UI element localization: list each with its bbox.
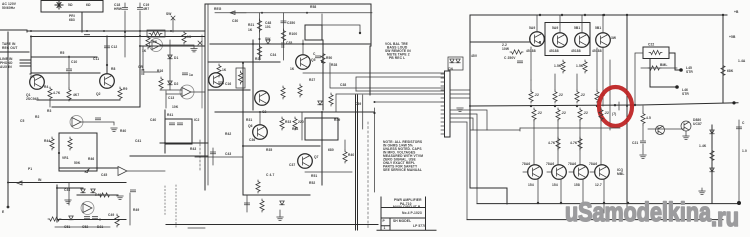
svg-text:R43: R43 — [190, 147, 196, 151]
svg-text:.22: .22 — [580, 93, 585, 97]
svg-text:.22: .22 — [558, 93, 563, 97]
svg-text:10K: 10K — [172, 105, 179, 109]
svg-text:1.5K: 1.5K — [554, 64, 562, 68]
resistor R9 — [118, 87, 122, 100]
crease dashed — [355, 95, 357, 230]
wire v363 — [362, 95, 364, 129]
wire h195 — [243, 194, 310, 196]
capacitor C44 — [95, 118, 100, 120]
svg-text:LP 5770: LP 5770 — [413, 224, 426, 228]
pot wiper arrow — [85, 169, 89, 173]
svg-text:C46: C46 — [64, 188, 70, 192]
svg-text:R20: R20 — [255, 57, 261, 61]
mid rail y106 — [470, 103, 738, 106]
diode D13 — [710, 130, 714, 134]
wire base feed — [470, 38, 530, 42]
svg-text:R40: R40 — [348, 153, 354, 157]
resistor R6 — [67, 88, 71, 101]
wire from T1 — [81, 12, 83, 32]
diode D5 — [318, 101, 322, 105]
svg-text:C 4.7: C 4.7 — [266, 173, 274, 177]
svg-text:1K: 1K — [248, 28, 253, 32]
wire j-fan right 2 — [450, 93, 470, 95]
bottom rail — [166, 224, 378, 226]
junction dot — [302, 43, 304, 45]
svg-text:C13: C13 — [168, 96, 174, 100]
svg-text:uSamodelkina: uSamodelkina — [565, 197, 712, 227]
capacitor C100 — [246, 195, 248, 212]
wire Q5 collector — [302, 40, 304, 55]
resistor R37 — [260, 199, 264, 212]
svg-text:R28: R28 — [331, 63, 337, 67]
rail dots — [539, 14, 541, 16]
transistor Q9 — [530, 32, 545, 47]
svg-text:R100: R100 — [289, 32, 297, 36]
wire j-fan right 3 — [450, 97, 470, 99]
svg-text:R39: R39 — [334, 118, 340, 122]
op-amp U3 — [72, 118, 81, 127]
svg-text:.22: .22 — [604, 111, 609, 115]
svg-text:4.7K: 4.7K — [548, 141, 556, 145]
connector J1 pins — [441, 74, 445, 134]
svg-text:.22: .22 — [534, 93, 539, 97]
svg-text:R5: R5 — [60, 51, 64, 55]
node X1 — [171, 16, 175, 32]
svg-text:C350: C350 — [287, 21, 295, 25]
wire input 2 — [20, 62, 31, 64]
wire v323 — [322, 40, 324, 110]
resistor R26 — [329, 93, 333, 106]
svg-text:78A6: 78A6 — [546, 162, 554, 166]
arrow node — [230, 11, 246, 15]
resistor R47 — [48, 217, 61, 221]
svg-text:BML: BML — [660, 63, 667, 67]
transistor Q16 — [552, 165, 567, 180]
transistor Q12 — [596, 33, 611, 48]
svg-text:SH MODEL: SH MODEL — [393, 219, 411, 223]
right block bottom edge — [470, 188, 507, 204]
svg-text:5A9: 5A9 — [552, 26, 558, 30]
op-amp U1 — [152, 41, 161, 50]
svg-text:1K: 1K — [222, 68, 227, 72]
wire v561a — [557, 120, 559, 164]
svg-text:C30: C30 — [232, 19, 238, 23]
svg-text:R50: R50 — [326, 56, 332, 60]
svg-text:3W: 3W — [611, 36, 617, 40]
ground G8 — [685, 131, 687, 136]
svg-text:C40: C40 — [150, 118, 156, 122]
wire h143 — [160, 142, 208, 144]
svg-text:MAIN CIRCUIT B: MAIN CIRCUIT B — [393, 205, 421, 209]
capacitor C46 — [98, 193, 111, 197]
junction dot — [242, 145, 244, 147]
svg-text:4.5: 4.5 — [646, 116, 651, 120]
svg-text:1.4K: 1.4K — [699, 144, 707, 148]
resistor R80 .22 — [532, 108, 536, 121]
wire j-fan left 3 — [330, 63, 444, 88]
svg-text:R58: R58 — [310, 5, 316, 9]
resistor R18 — [217, 64, 221, 77]
connector J1 body — [445, 71, 451, 137]
svg-text:1.5K: 1.5K — [576, 64, 584, 68]
transistor Q3 — [209, 73, 224, 88]
transistor Q4 — [255, 91, 270, 106]
resistor R23 — [281, 29, 285, 42]
wire v143 — [143, 46, 160, 72]
transistor Q2 — [100, 74, 115, 89]
bias box — [305, 118, 338, 140]
wire j-fan right 7 — [450, 122, 467, 220]
wire j-fan left 5 — [336, 94, 444, 112]
resistor R72 — [710, 149, 714, 162]
bottom rail right — [477, 203, 739, 205]
resistor R61 — [561, 60, 565, 73]
svg-text:C34: C34 — [270, 53, 276, 57]
junction dot — [164, 142, 166, 144]
diode D4 — [266, 40, 270, 44]
resistor R82 .22 — [578, 108, 582, 121]
wire h73b — [303, 72, 323, 74]
capacitor C14 — [142, 69, 144, 74]
wire volume — [59, 167, 118, 169]
resistor R83 .22 — [599, 108, 603, 121]
svg-text:10W: 10W — [502, 47, 510, 51]
wire j-fan right 1 — [450, 89, 470, 91]
junction dot — [626, 105, 628, 107]
wire Q1 emitter — [49, 100, 51, 107]
svg-text:D1: D1 — [174, 56, 178, 60]
svg-text:+B: +B — [734, 10, 739, 14]
resistor R50 — [321, 52, 325, 65]
capacitor C18 — [124, 3, 126, 57]
svg-text:R16: R16 — [157, 69, 163, 73]
capacitor C32 — [283, 13, 285, 60]
wire h112 — [215, 111, 374, 113]
svg-text:C43: C43 — [225, 152, 231, 156]
svg-text:R8: R8 — [111, 67, 115, 71]
capacitor C48 — [130, 190, 135, 192]
resistor R65 .22 — [576, 74, 578, 90]
resistor R45 — [68, 137, 72, 150]
capacitor C35 — [282, 42, 284, 47]
wire v57 — [56, 185, 58, 222]
junction dot — [602, 14, 604, 16]
right block left edge — [469, 15, 471, 188]
wire U4 out — [127, 170, 165, 172]
crease dashed 2 — [367, 122, 369, 230]
wire x202 — [201, 35, 203, 108]
node dots row — [99, 219, 101, 221]
big block right edge upper — [370, 4, 372, 46]
capacitor C16 — [218, 82, 223, 84]
junction dot — [7, 182, 9, 184]
wire v170 — [169, 40, 171, 90]
inductor box L1 — [643, 47, 669, 59]
resistor R34 — [293, 117, 297, 130]
wire v615 — [609, 60, 611, 130]
wire input 1 — [20, 59, 31, 61]
svg-text:C5: C5 — [20, 119, 24, 123]
big block top edge — [205, 3, 371, 5]
wire U2 in1 — [160, 89, 182, 91]
diode D14 — [710, 168, 714, 172]
ground G7 — [640, 155, 646, 158]
resistor R40 — [344, 140, 346, 150]
ground G2 — [279, 210, 281, 217]
svg-text:C45: C45 — [101, 173, 107, 177]
bottom rail right — [467, 219, 723, 221]
svg-text:6Ω: 6Ω — [86, 3, 91, 7]
wire v302 — [301, 112, 303, 140]
junction tick — [618, 102, 620, 110]
diode D11 — [456, 59, 460, 63]
svg-text:SW: SW — [265, 37, 271, 41]
input box — [59, 133, 97, 171]
diode D1 — [168, 55, 172, 59]
right block top rail — [470, 14, 727, 16]
svg-text:78A6: 78A6 — [568, 162, 576, 166]
op-amp U4 — [118, 167, 127, 176]
node X2 — [198, 41, 202, 45]
svg-text:P1: P1 — [28, 167, 32, 171]
svg-text:1.4A: 1.4A — [738, 59, 746, 63]
capacitor C21 — [642, 125, 644, 154]
dotted net A — [164, 186, 166, 216]
svg-text:C39: C39 — [355, 102, 361, 106]
transistor Q1 — [30, 75, 45, 90]
wire h44 — [210, 43, 371, 45]
rail dots 2 — [530, 105, 532, 107]
svg-text:R21: R21 — [248, 23, 254, 27]
resistor R76 4.7k — [578, 137, 582, 150]
wire out top — [669, 53, 679, 70]
svg-text:UC87: UC87 — [693, 122, 702, 126]
wire h156 — [130, 155, 208, 157]
resistor R14 — [182, 31, 186, 44]
resistor R4 — [48, 87, 52, 100]
svg-text:+5B: +5B — [729, 35, 736, 39]
wire h129 — [648, 128, 684, 130]
svg-text:.22: .22 — [583, 111, 588, 115]
wire v357 — [357, 95, 359, 230]
svg-text:154: 154 — [528, 183, 534, 187]
svg-text:.22: .22 — [561, 111, 566, 115]
wire v165 — [164, 110, 166, 153]
junction dot — [30, 36, 32, 38]
svg-text:IC2: IC2 — [194, 118, 199, 122]
bus junction dots — [124, 36, 126, 38]
big block left edge — [204, 4, 206, 190]
resistor R25 — [298, 84, 302, 97]
svg-text:REG: REG — [214, 7, 222, 11]
marks column — [212, 148, 214, 165]
capacitor C15 — [182, 73, 187, 75]
svg-text:R42: R42 — [225, 132, 231, 136]
wire input 3 — [20, 65, 31, 67]
svg-text:45188: 45188 — [549, 49, 559, 53]
svg-text:5A9: 5A9 — [529, 26, 535, 30]
resistor R63 .22 — [530, 80, 532, 90]
transistor Q18 — [595, 165, 610, 180]
svg-text:12.7: 12.7 — [595, 183, 602, 187]
wire h157 — [195, 156, 243, 158]
wire h128 row2 — [520, 127, 620, 129]
svg-text:Q2: Q2 — [96, 92, 101, 96]
svg-text:78A6: 78A6 — [589, 162, 597, 166]
wire h46 — [140, 45, 205, 47]
svg-text:1: 1 — [384, 226, 386, 230]
svg-text:R48: R48 — [95, 193, 101, 197]
svg-text:R44: R44 — [44, 139, 50, 143]
svg-text:101: 101 — [265, 25, 271, 29]
dashed net — [199, 140, 201, 172]
red circle annotation — [599, 87, 632, 126]
svg-text:R4: R4 — [44, 85, 48, 89]
svg-text:C22: C22 — [648, 43, 654, 47]
svg-text:68K: 68K — [727, 69, 734, 73]
svg-text:R49: R49 — [133, 208, 139, 212]
ground G4 — [65, 200, 71, 203]
wire h222 — [58, 219, 126, 221]
junction dot — [103, 30, 105, 32]
svg-text:IN: IN — [38, 178, 42, 182]
wire v604a — [600, 120, 602, 164]
svg-text:.ru: .ru — [711, 202, 739, 232]
svg-text:220: 220 — [298, 120, 304, 124]
ground G1 — [191, 49, 197, 52]
big block inner top — [215, 12, 372, 14]
svg-text:STR: STR — [686, 70, 693, 74]
wire Q6 collector — [259, 112, 261, 124]
wire K1 top — [322, 14, 360, 33]
svg-text:1u: 1u — [189, 73, 193, 77]
svg-text:R46: R46 — [88, 157, 94, 161]
capacitor C41 — [169, 123, 174, 125]
resistor R33 — [280, 117, 284, 130]
capacitor C10 — [68, 56, 70, 88]
svg-text:.22: .22 — [537, 111, 542, 115]
svg-text:D2: D2 — [174, 82, 178, 86]
wire emitters down — [538, 179, 604, 203]
diode D7 — [280, 201, 284, 205]
svg-text:5B1: 5B1 — [595, 26, 601, 30]
node dot in — [7, 206, 10, 209]
wire j-fan left 4 — [356, 90, 444, 92]
wire bus top-left — [0, 30, 27, 32]
svg-text:AUX IN: AUX IN — [0, 65, 12, 69]
dotted net B — [175, 185, 177, 228]
rail dots 3 — [537, 202, 539, 204]
svg-text:R41: R41 — [167, 113, 173, 117]
sub-box tone top — [208, 61, 280, 63]
transistor Q5 — [296, 55, 311, 70]
resistor R81 .22 — [556, 108, 560, 121]
node dot — [58, 152, 60, 154]
capacitor C47 — [81, 189, 85, 193]
svg-text:VR1: VR1 — [62, 156, 69, 160]
wire base stubs row2 — [523, 171, 595, 173]
title text — [383, 198, 427, 230]
svg-text:R52: R52 — [309, 181, 315, 185]
svg-text:MBL: MBL — [617, 172, 624, 176]
svg-text:C49: C49 — [108, 213, 114, 217]
wire v712 — [711, 125, 713, 203]
resistor R64 .22 — [554, 74, 556, 90]
wire v520 — [470, 128, 520, 131]
svg-text:1K: 1K — [187, 35, 192, 39]
resistor R36 — [256, 180, 260, 193]
svg-text:1.0: 1.0 — [742, 149, 747, 153]
resistor R24 — [281, 86, 285, 99]
wire h227 — [55, 226, 110, 228]
wire h172 — [305, 171, 352, 173]
wire v583a — [579, 120, 581, 164]
junction dot — [56, 187, 58, 189]
diode bridge D90 — [55, 1, 63, 9]
wire j-fan right 4 — [450, 110, 487, 130]
resistor R75 4.7k — [556, 137, 560, 150]
svg-text:STR: STR — [682, 92, 689, 96]
svg-text:154: 154 — [552, 183, 558, 187]
svg-text:R33: R33 — [285, 120, 291, 124]
transistor Q14 — [681, 121, 691, 131]
svg-text:HRW: HRW — [114, 7, 123, 11]
junction dot — [252, 43, 254, 45]
capacitor C42 — [177, 123, 182, 125]
svg-text:No.4 P-1023: No.4 P-1023 — [402, 211, 422, 215]
block right edge low — [374, 108, 376, 192]
wire v739 — [738, 120, 740, 203]
wire stub below rail — [604, 203, 627, 213]
wire v140 — [139, 46, 141, 107]
svg-text:C36: C36 — [249, 138, 255, 142]
wire v253 — [252, 40, 254, 110]
svg-text:683: 683 — [69, 18, 75, 22]
wire j-fan left 6 — [374, 101, 444, 103]
wire h146 — [243, 145, 320, 147]
svg-text:C35: C35 — [286, 41, 292, 45]
svg-text:1K: 1K — [290, 67, 295, 71]
transistor Q7 — [298, 154, 313, 169]
junction dot — [539, 41, 541, 43]
svg-text:R9: R9 — [123, 87, 127, 91]
wire v243 — [242, 63, 244, 195]
capacitor C20 on bus — [84, 35, 89, 37]
junction dot — [30, 30, 32, 32]
wire bus A — [27, 30, 205, 32]
svg-text:C16: C16 — [225, 82, 231, 86]
transistor Q6 — [253, 125, 268, 140]
resistor R11 — [146, 36, 150, 49]
ground G6 — [457, 108, 463, 111]
ground G9 — [701, 188, 703, 191]
left main vertical — [7, 32, 9, 206]
capacitor C19 — [139, 3, 141, 52]
svg-text:SW: SW — [166, 12, 172, 16]
diode D10 — [450, 59, 454, 63]
resistor R66 .22 — [596, 48, 598, 90]
notes text block A — [385, 42, 411, 60]
resistor R62 — [583, 60, 587, 73]
notes text block B — [383, 140, 423, 172]
svg-text:158: 158 — [574, 183, 580, 187]
wire j-fan left 2 — [356, 77, 444, 91]
transistor Q13 — [656, 126, 665, 135]
junction dot — [321, 111, 323, 113]
wire v603 — [602, 48, 604, 106]
svg-text:45188: 45188 — [571, 49, 581, 53]
filter box — [165, 119, 192, 144]
